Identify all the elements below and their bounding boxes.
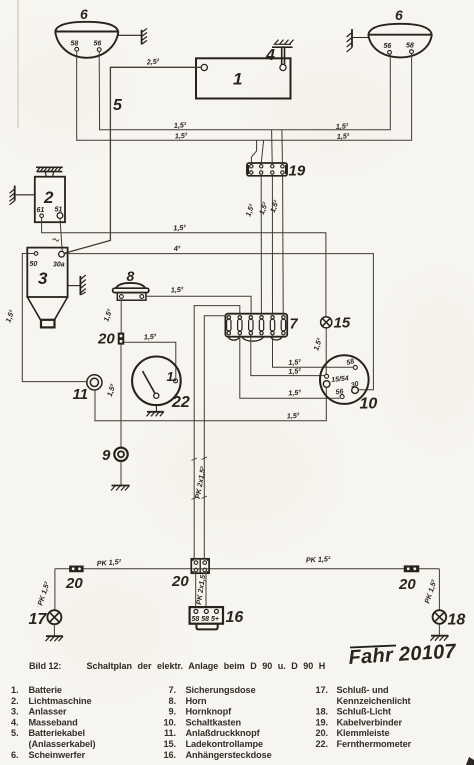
fuse 1 [227,316,231,335]
generator 2 (Lichtmaschine) [35,167,65,222]
svg-text:Anlaßdruckknopf: Anlaßdruckknopf [186,728,261,738]
svg-text:1,5²: 1,5² [173,223,187,233]
svg-text:1,5²: 1,5² [287,411,301,421]
svg-text:2,5²: 2,5² [145,56,160,66]
svg-text:Masseband: Masseband [29,717,78,727]
svg-text:7: 7 [290,317,299,333]
svg-text:Anlasser: Anlasser [29,707,68,717]
wire B 4²: starter 30a to switchbox 30 [64,254,373,390]
fuse 6 [281,316,285,335]
lamp 18 (Schluss-Licht) [438,569,440,611]
ground (lamp 17) [46,636,64,641]
wire w1: fuse 5 to switchbox 58 [273,335,353,368]
svg-text:56: 56 [335,388,344,396]
cable connector 20 (horn circuit) [118,333,124,345]
double connector 20 (middle) [191,559,209,573]
svg-text:10.: 10. [164,717,176,727]
legend column 1 [11,685,95,760]
legend column 3 [316,685,412,749]
svg-text:11: 11 [73,386,89,403]
svg-text:Fernthermometer: Fernthermometer [337,739,412,749]
svg-text:50: 50 [30,261,38,268]
svg-text:1.: 1. [11,685,18,695]
svg-text:51: 51 [55,207,63,214]
headlight 6 (left) [55,22,118,58]
svg-text:1,5²: 1,5² [171,285,185,295]
svg-text:Ladekontrollampe: Ladekontrollampe [186,739,264,749]
svg-text:1,5²: 1,5² [144,332,158,342]
wire v2: fuse box left side, down to trailer socket [204,316,225,560]
ground (right headlight) [347,29,369,52]
switchbox 10 (Schaltkasten) [320,355,369,404]
svg-text:15: 15 [334,315,351,332]
ground (starter) [68,275,86,295]
svg-text:56: 56 [94,41,102,48]
wire A: generator 61 to lamp 15 [42,218,326,317]
wire w2: fuse 3 to switchbox 15/54 [251,335,324,376]
svg-text:1,5²: 1,5² [288,366,302,376]
svg-text:2.: 2. [11,696,18,706]
cable connector 20 (left) [69,566,83,572]
wire: horn to fuse 3 [146,296,251,313]
svg-text:Batteriekabel: Batteriekabel [29,728,85,738]
svg-text:3.: 3. [11,707,18,717]
wire: lamp 18 to ground [438,624,440,636]
svg-text:9: 9 [102,447,111,464]
svg-text:11.: 11. [164,728,176,738]
lamp 17 (Schluss- und Kennzeichenlicht) [54,569,56,610]
svg-text:6.: 6. [11,750,18,760]
svg-text:16: 16 [226,609,244,626]
svg-text:1,5²: 1,5² [175,131,189,141]
svg-text:10: 10 [360,396,378,413]
svg-text:Schluß-Licht: Schluß-Licht [337,707,391,717]
svg-text:1,5²: 1,5² [174,120,188,130]
wire through middle connector [193,568,209,570]
svg-text:8.: 8. [169,696,176,706]
label squiggle [53,239,60,241]
wires: connector to trailer socket [196,573,206,607]
svg-text:20: 20 [97,331,115,348]
ground (horn button) [111,486,130,491]
svg-text:22: 22 [171,394,190,411]
cable marker ticks [192,457,208,500]
wire v1: fuse 2 top, down to bottom connector [194,306,240,560]
wire: button 11 to switchbox 15/54 [95,388,326,421]
terminal strip 19 (Kabelverbinder) [247,163,287,176]
wire: H1 56-circuit (left 56 to right 56) [99,52,390,130]
svg-text:30a: 30a [53,262,65,269]
page edge mark top-left [17,0,19,128]
svg-text:(Anlasserkabel): (Anlasserkabel) [29,739,96,749]
svg-text:22.: 22. [316,739,328,749]
svg-text:4²: 4² [173,244,182,254]
svg-text:16.: 16. [164,750,176,760]
svg-text:4: 4 [265,47,275,64]
wire: generator 51 to starter 30a [60,218,62,250]
svg-text:17: 17 [29,611,48,628]
wire: lamp 17 to ground [53,624,55,636]
wire: starter 50 to button 11 [22,254,87,382]
svg-text:8: 8 [127,268,135,284]
svg-text:Lichtmaschine: Lichtmaschine [29,696,92,706]
svg-text:1,5²: 1,5² [336,121,350,131]
svg-text:Schluß- und: Schluß- und [337,685,389,695]
wire: strip 19 down to fuse 6 [282,176,285,313]
svg-text:Scheinwerfer: Scheinwerfer [29,750,86,760]
svg-text:3: 3 [38,269,48,288]
charge lamp 15 (Ladekontrollampe) [321,317,332,328]
horn 8 [113,283,149,300]
svg-text:20: 20 [65,575,83,592]
battery 1 [196,58,291,98]
svg-text:19.: 19. [316,717,328,727]
starter 3 (Anlasser) [27,248,67,328]
legend column 2 [164,685,272,760]
ground (thermometer) [147,405,164,416]
wire: lamp 15 down to 15/54 [325,328,327,374]
horn button 9 (Hornknopf) [114,448,127,461]
svg-text:9.: 9. [169,707,176,717]
fuse box 7 (Sicherungsdose) [225,314,287,341]
svg-text:20.: 20. [316,728,328,738]
wire: strip 19 down to fuse 4 [260,176,262,313]
svg-text:15.: 15. [164,739,176,749]
wire: taps H1 to strip 19 cols 3,4 [272,130,283,163]
svg-text:PK 1,5²: PK 1,5² [306,554,331,564]
svg-text:17.: 17. [316,685,328,695]
svg-text:Bild 12:: Bild 12: [29,661,61,671]
wire: battery cable 5 [65,67,202,253]
svg-text:20: 20 [171,573,189,590]
wire: strip 19 down to fuse 5 [271,176,273,313]
page edge mark bottom-right [466,757,474,765]
svg-text:Sicherungsdose: Sicherungsdose [186,685,256,695]
svg-text:1.: 1. [167,369,178,384]
ground (generator) [10,186,35,205]
svg-text:2: 2 [43,188,54,207]
wire: button 9 to ground [120,461,122,485]
svg-text:18: 18 [448,612,466,629]
ground (battery masseband) [272,40,294,48]
wire: main bottom light wire [55,568,440,570]
Fahr 20107 script logo [348,640,457,669]
svg-text:19: 19 [289,163,306,180]
svg-text:Anhängersteckdose: Anhängersteckdose [186,750,272,760]
svg-text:18.: 18. [316,707,328,717]
svg-text:Batterie: Batterie [29,685,62,695]
svg-text:1,5²: 1,5² [337,131,351,141]
svg-text:Schaltplan der elektr. Anlage: Schaltplan der elektr. Anlage beim D 90 … [87,661,326,671]
starter button 11 (Anlassdruckknopf) [87,375,102,390]
ground (lamp 18) [431,636,449,641]
svg-text:Hornknopf: Hornknopf [186,707,233,717]
fuse 2 [238,316,242,335]
svg-text:58: 58 [406,43,414,50]
wire w3: fuse 2 to switchbox 56 [240,335,340,398]
svg-text:5: 5 [113,97,123,114]
svg-text:5.: 5. [11,728,18,738]
svg-text:6: 6 [395,7,403,23]
masseband 4 [282,47,285,64]
svg-text:Schaltkasten: Schaltkasten [186,717,242,727]
headlight 6 (right) [368,24,432,58]
svg-text:58: 58 [71,41,79,48]
svg-text:Klemmleiste: Klemmleiste [337,728,390,738]
svg-text:Kennzeichenlicht: Kennzeichenlicht [337,696,411,706]
fuse 4 [259,316,263,335]
svg-text:4.: 4. [11,717,18,727]
svg-text:7.: 7. [169,685,176,695]
svg-text:20: 20 [398,576,416,593]
wire: H2 58-circuit (left 58 to right 58) [77,51,412,140]
bridge arcs under fuse box [228,337,239,340]
svg-text:6: 6 [80,6,88,22]
wire: taps H2 to strip 19 cols 1,2 [251,140,263,162]
cable connector 20 (right) [404,566,419,572]
trailer socket 16 (Anhaengersteckdose) [190,607,223,629]
ground (left headlight) [118,29,147,45]
wire: horn down to connector 20 [120,300,122,333]
svg-text:58 58 5+: 58 58 5+ [192,616,219,623]
svg-text:61: 61 [37,207,45,214]
svg-text:Horn: Horn [186,696,208,706]
svg-text:1,5²: 1,5² [288,388,302,398]
fuse 3 [249,316,253,335]
svg-text:56: 56 [384,43,392,50]
wire: connector 20 to thermometer 22 [124,342,176,378]
fuse 5 [270,316,274,335]
svg-text:1: 1 [233,70,242,89]
thermometer 22 (Fernthermometer) [132,357,181,406]
wire: connector 20 down to horn button 9 [120,344,122,447]
svg-text:Kabelverbinder: Kabelverbinder [337,717,403,727]
